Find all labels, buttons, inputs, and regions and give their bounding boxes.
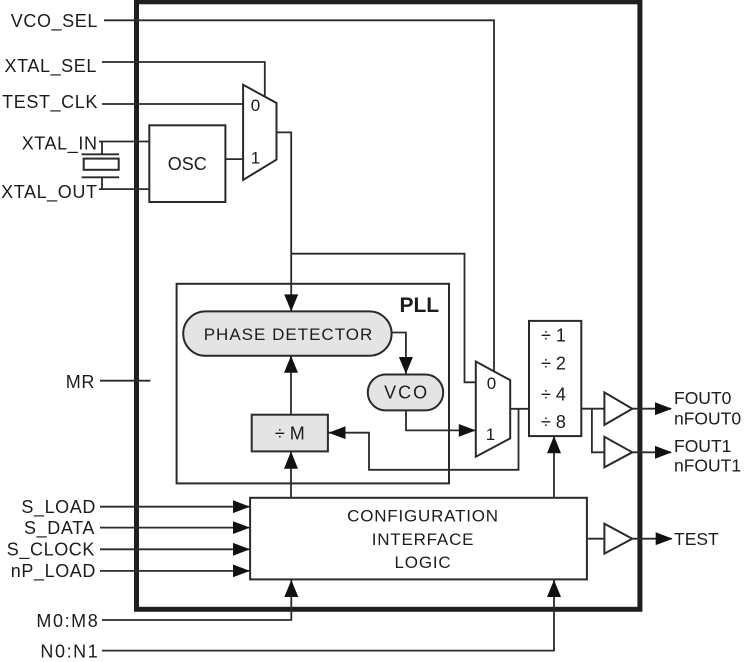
svg-text:M0:M8: M0:M8 bbox=[36, 611, 99, 631]
svg-text:÷ 8: ÷ 8 bbox=[541, 412, 566, 432]
svg-text:XTAL_IN: XTAL_IN bbox=[22, 133, 98, 154]
svg-text:1: 1 bbox=[486, 425, 495, 444]
svg-text:÷ M: ÷ M bbox=[275, 424, 305, 444]
svg-text:VCO_SEL: VCO_SEL bbox=[11, 11, 98, 32]
svg-text:PLL: PLL bbox=[399, 294, 439, 317]
svg-text:S_CLOCK: S_CLOCK bbox=[7, 540, 95, 561]
svg-text:CONFIGURATION: CONFIGURATION bbox=[347, 507, 499, 526]
svg-text:nFOUT0: nFOUT0 bbox=[674, 408, 741, 428]
svg-text:÷ 2: ÷ 2 bbox=[541, 353, 566, 373]
svg-text:TEST: TEST bbox=[674, 529, 719, 549]
svg-text:TEST_CLK: TEST_CLK bbox=[2, 92, 98, 113]
svg-text:S_DATA: S_DATA bbox=[24, 518, 95, 539]
svg-text:0: 0 bbox=[251, 96, 260, 115]
svg-text:PHASE DETECTOR: PHASE DETECTOR bbox=[204, 325, 374, 344]
svg-text:OSC: OSC bbox=[168, 154, 207, 174]
svg-text:XTAL_OUT: XTAL_OUT bbox=[1, 182, 98, 203]
svg-text:INTERFACE: INTERFACE bbox=[372, 530, 475, 549]
svg-text:N0:N1: N0:N1 bbox=[40, 641, 99, 661]
svg-text:1: 1 bbox=[251, 148, 260, 167]
svg-text:÷ 1: ÷ 1 bbox=[541, 325, 566, 345]
svg-text:MR: MR bbox=[66, 372, 95, 392]
svg-text:XTAL_SEL: XTAL_SEL bbox=[4, 56, 97, 77]
svg-text:÷ 4: ÷ 4 bbox=[541, 385, 566, 405]
svg-text:nP_LOAD: nP_LOAD bbox=[11, 561, 96, 582]
svg-text:0: 0 bbox=[487, 374, 496, 393]
svg-text:VCO: VCO bbox=[384, 383, 429, 403]
svg-text:nFOUT1: nFOUT1 bbox=[674, 455, 741, 475]
svg-text:FOUT0: FOUT0 bbox=[674, 388, 732, 408]
svg-text:FOUT1: FOUT1 bbox=[674, 436, 731, 456]
svg-text:LOGIC: LOGIC bbox=[395, 553, 452, 572]
svg-text:S_LOAD: S_LOAD bbox=[21, 497, 96, 518]
